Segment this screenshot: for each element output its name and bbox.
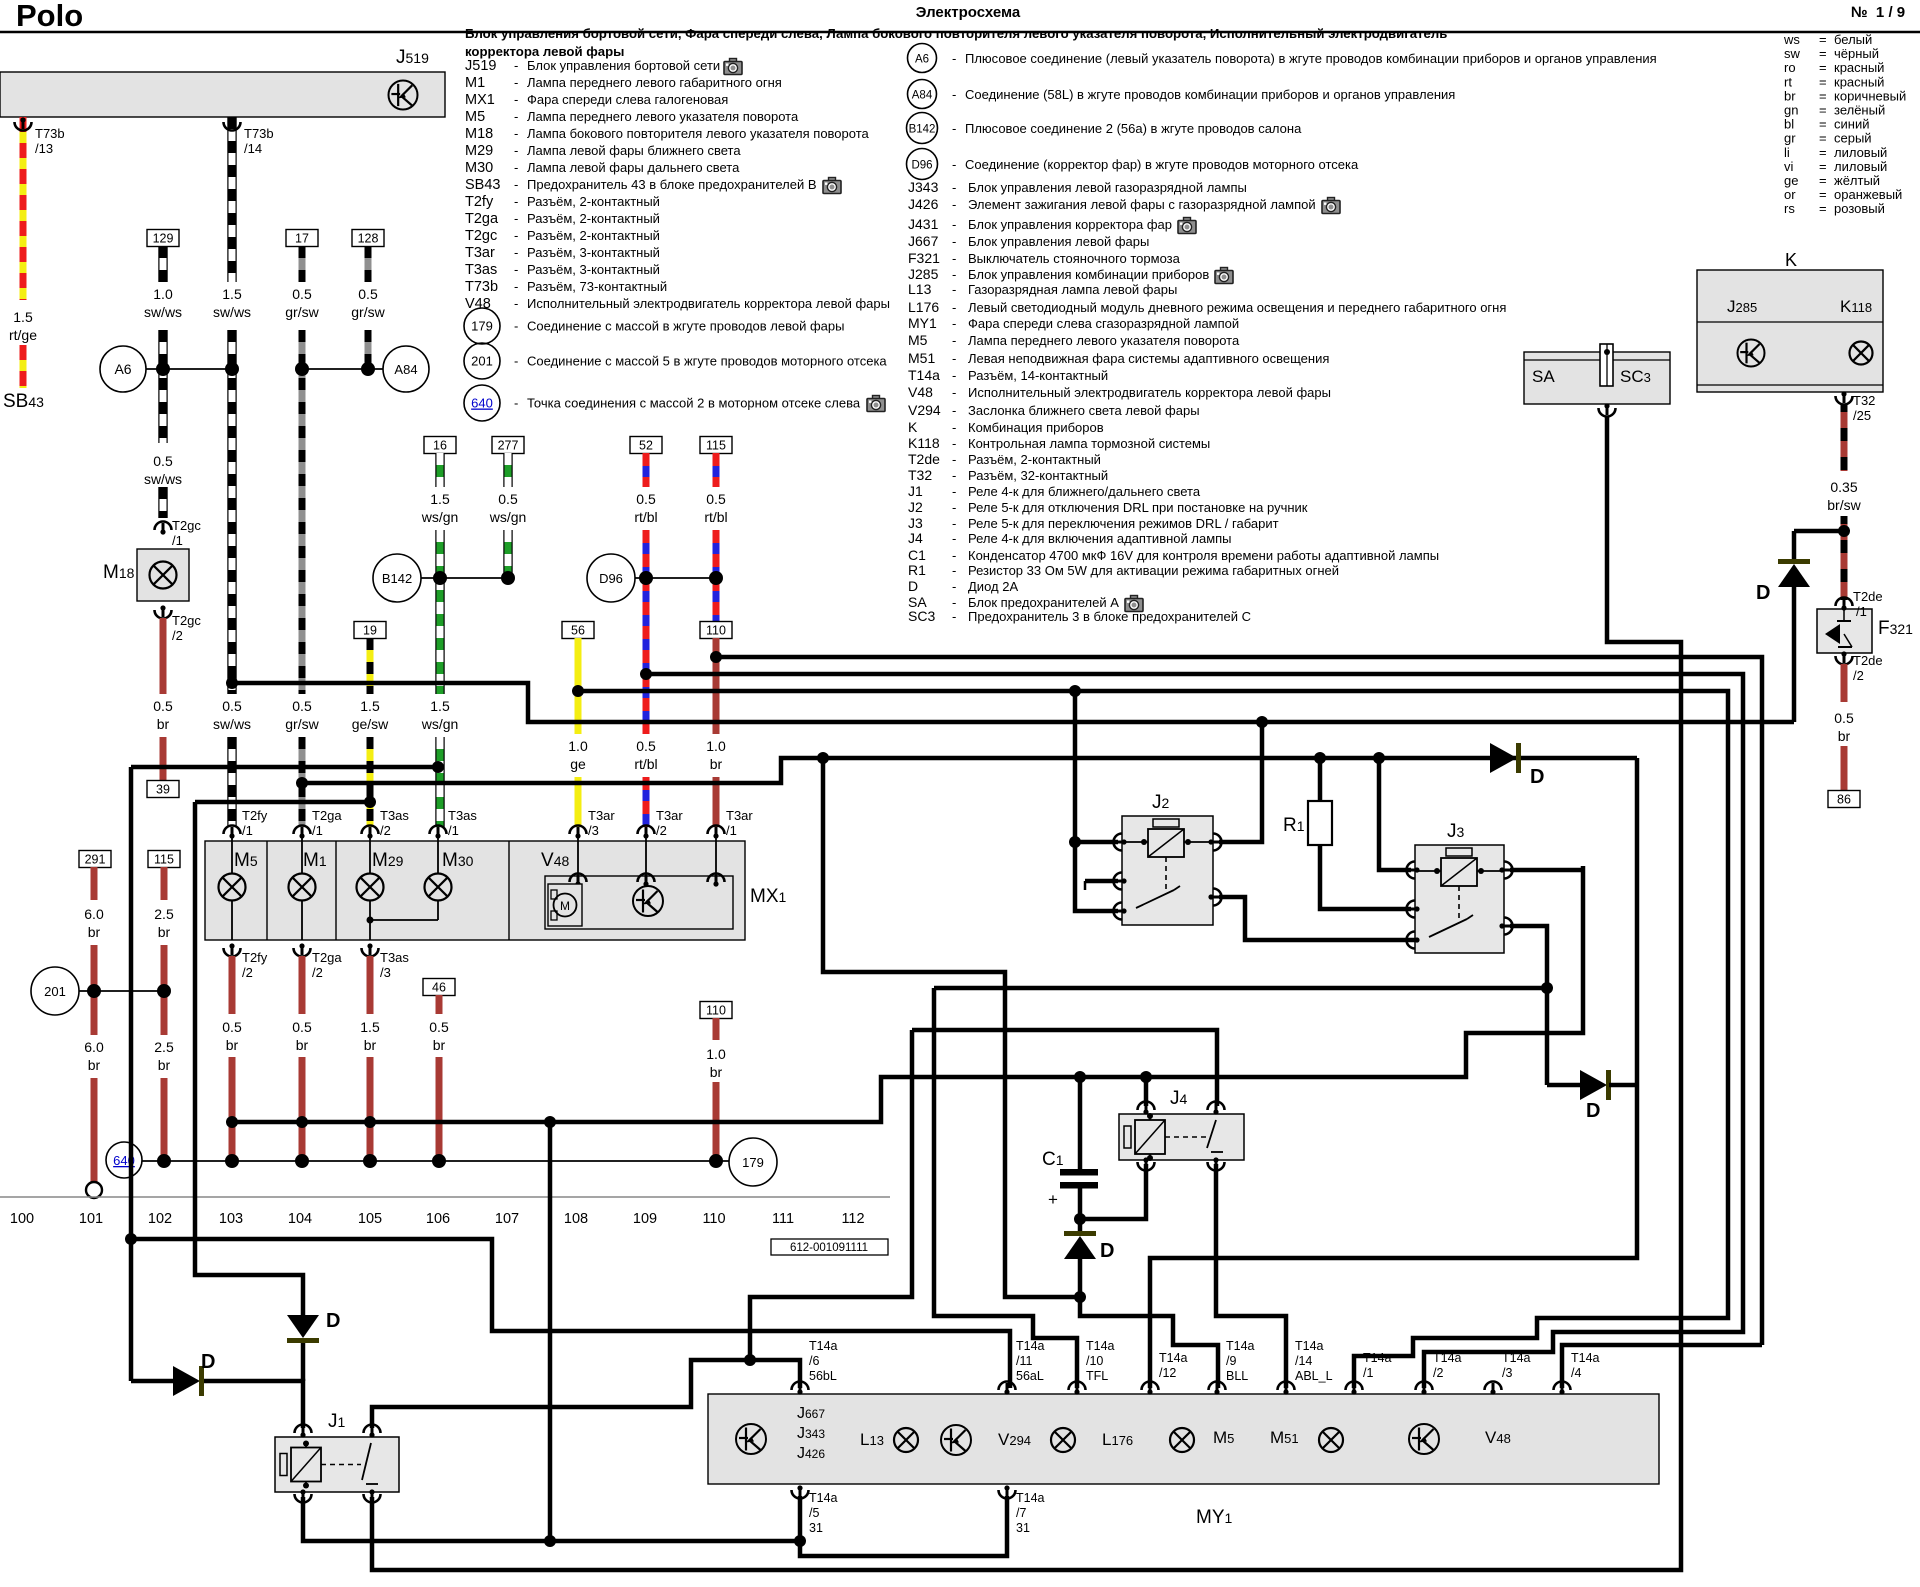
svg-text:=: = — [1819, 103, 1827, 118]
wire C1 to junction — [1078, 1188, 1083, 1236]
svg-text:M51: M51 — [1270, 1428, 1299, 1447]
svg-text:C1: C1 — [908, 547, 926, 563]
svg-text:-: - — [514, 262, 518, 277]
wire 1.5 br below T3as/3 — [367, 956, 374, 1014]
svg-text:1.5: 1.5 — [222, 286, 242, 302]
svg-text:-: - — [514, 58, 518, 73]
svg-text:M30: M30 — [465, 160, 493, 176]
wire R1 branch — [1318, 758, 1323, 801]
wire J4 switch feed — [912, 1030, 1217, 1106]
svg-text:vi: vi — [1784, 159, 1794, 174]
svg-text:L176: L176 — [1102, 1430, 1133, 1449]
handbrake switch F321 — [1817, 609, 1872, 653]
svg-text:R1: R1 — [908, 562, 926, 578]
svg-text:корректора левой фары: корректора левой фары — [465, 44, 624, 59]
svg-text:1.0: 1.0 — [706, 1046, 726, 1062]
svg-text:=: = — [1819, 60, 1827, 75]
svg-text:A6: A6 — [114, 361, 131, 377]
wire J2 coil feed riser — [1075, 691, 1118, 911]
svg-text:rt: rt — [1784, 74, 1792, 89]
connector T2ga/2 — [294, 948, 311, 957]
dash symbol J667 J343 J426 — [736, 1424, 766, 1454]
svg-text:T14a: T14a — [1295, 1339, 1324, 1353]
connector T14a//12 — [1142, 1382, 1159, 1391]
wire M30 to M29 internal — [370, 919, 438, 921]
svg-text:Заслонка ближнего света левой: Заслонка ближнего света левой фары — [968, 403, 1200, 418]
svg-text:Разъём, 2-контактный: Разъём, 2-контактный — [527, 228, 660, 243]
svg-text:-: - — [514, 211, 518, 226]
wire diode to T14a/9 — [1080, 1259, 1218, 1388]
terminal 46 box — [423, 979, 455, 996]
wire J4 switch to T14a/14 — [1216, 1164, 1286, 1388]
wire J3 NC to lamp circuits — [1510, 868, 1583, 873]
wire br/sw 0.35 — [1841, 404, 1848, 471]
resistor R1 — [1308, 801, 1332, 845]
svg-text:Лампа переднего левого габарит: Лампа переднего левого габаритного огня — [527, 75, 782, 90]
wire br below M18 — [160, 618, 167, 694]
svg-text:A84: A84 — [912, 90, 933, 102]
svg-text:/1: /1 — [172, 533, 183, 548]
svg-text:/5: /5 — [809, 1506, 819, 1520]
svg-text:-: - — [514, 228, 518, 243]
svg-text:/2: /2 — [312, 965, 323, 980]
svg-text:T14a: T14a — [1086, 1339, 1115, 1353]
svg-text:T3as: T3as — [448, 808, 477, 823]
svg-text:Конденсатор 4700 мкФ 16V для к: Конденсатор 4700 мкФ 16V для контроля вр… — [968, 548, 1439, 563]
svg-text:D: D — [1586, 1100, 1600, 1122]
svg-text:D: D — [1530, 766, 1544, 788]
svg-text:розовый: розовый — [1834, 201, 1885, 216]
svg-text:Лампа переднего левого указате: Лампа переднего левого указателя поворот… — [968, 333, 1240, 348]
svg-text:Лампа бокового повторителя лев: Лампа бокового повторителя левого указат… — [527, 126, 870, 141]
wire J4 switch feed riser — [750, 1030, 912, 1360]
svg-text:/2: /2 — [1433, 1366, 1443, 1380]
terminal 110 box lower — [700, 1002, 732, 1019]
svg-text:F321: F321 — [908, 250, 940, 266]
wire to T14a/11 — [131, 1239, 1010, 1388]
wire 0.5 br below T2ga/2 — [299, 956, 306, 1014]
svg-text:Фара спереди слева галогеновая: Фара спереди слева галогеновая — [527, 92, 728, 107]
svg-text:6.0: 6.0 — [84, 1039, 104, 1055]
svg-text:0.5: 0.5 — [153, 698, 173, 714]
svg-text:T3ar: T3ar — [726, 808, 753, 823]
svg-text:110: 110 — [706, 1004, 726, 1018]
svg-text:gn: gn — [1784, 103, 1798, 118]
wire 52 line to T14a/2 — [646, 674, 1743, 1388]
wire 128 gr/sw — [352, 230, 384, 247]
relay J2 — [1122, 816, 1213, 925]
svg-text:T2ga: T2ga — [312, 808, 342, 823]
wire 56 ge — [562, 622, 594, 639]
svg-text:17: 17 — [295, 232, 309, 246]
svg-text:-: - — [952, 197, 956, 212]
svg-text:D: D — [908, 578, 918, 594]
svg-text:-: - — [952, 531, 956, 546]
svg-text:rs: rs — [1784, 201, 1795, 216]
svg-text:Разъём, 2-контактный: Разъём, 2-контактный — [527, 211, 660, 226]
svg-text:0.5: 0.5 — [498, 491, 518, 507]
wire sw/ws T73b/14 — [227, 117, 236, 282]
connector T2gc/2 — [155, 610, 172, 619]
svg-text:Элемент зажигания левой фары с: Элемент зажигания левой фары с газоразря… — [968, 197, 1316, 212]
svg-text:-: - — [514, 396, 518, 411]
svg-text:br/sw: br/sw — [1827, 497, 1861, 513]
junction D96 — [587, 554, 635, 602]
svg-text:-: - — [952, 579, 956, 594]
svg-text:/3: /3 — [1502, 1366, 1512, 1380]
svg-text:V294: V294 — [908, 402, 941, 418]
wire SC3 to J1 ground loop — [372, 416, 1681, 1570]
svg-text:-: - — [952, 563, 956, 578]
current track ruler — [0, 1196, 890, 1198]
svg-text:li: li — [1784, 145, 1790, 160]
svg-text:277: 277 — [498, 439, 519, 453]
wire B142 junction line — [421, 577, 508, 579]
wire 17 gr/sw — [286, 230, 318, 247]
svg-text:ws: ws — [1783, 32, 1800, 47]
svg-text:Разъём, 2-контактный: Разъём, 2-контактный — [527, 194, 660, 209]
svg-text:-: - — [952, 234, 956, 249]
connector T2de/2 — [1836, 656, 1853, 665]
svg-text:Лампа левой фары дальнего свет: Лампа левой фары дальнего света — [527, 160, 740, 175]
svg-text:/3: /3 — [380, 965, 391, 980]
svg-text:640: 640 — [471, 396, 493, 411]
svg-text:gr/sw: gr/sw — [285, 304, 319, 320]
svg-text:V48: V48 — [541, 850, 569, 871]
svg-text:MX1: MX1 — [750, 886, 787, 907]
svg-text:T3ar: T3ar — [588, 808, 615, 823]
svg-text:-: - — [952, 420, 956, 435]
svg-text:Polo: Polo — [16, 0, 83, 33]
svg-text:SA: SA — [1532, 367, 1555, 386]
wire ground bus to C1 junction — [823, 758, 1080, 1297]
svg-text:0.5: 0.5 — [222, 698, 242, 714]
control unit J519 box — [0, 72, 445, 117]
svg-text:J431: J431 — [908, 216, 939, 232]
svg-text:/7: /7 — [1016, 1506, 1026, 1520]
svg-text:/3: /3 — [588, 823, 599, 838]
svg-text:синий: синий — [1834, 117, 1869, 132]
svg-text:J426: J426 — [908, 196, 939, 212]
svg-text:=: = — [1819, 46, 1827, 61]
svg-text:T32: T32 — [1853, 393, 1875, 408]
svg-text:179: 179 — [742, 1155, 764, 1170]
svg-text:K118: K118 — [908, 435, 940, 451]
svg-text:T14a: T14a — [908, 367, 940, 383]
svg-text:105: 105 — [358, 1211, 382, 1227]
svg-text:V48: V48 — [465, 296, 491, 312]
svg-text:J343: J343 — [908, 179, 939, 195]
svg-text:br: br — [710, 756, 723, 772]
MY1 bottom connector T14a/7 — [999, 1490, 1016, 1499]
svg-text:/6: /6 — [809, 1354, 819, 1368]
junction A6 — [100, 346, 146, 392]
svg-text:-: - — [952, 300, 956, 315]
svg-text:-: - — [952, 267, 956, 282]
svg-text:/2: /2 — [242, 965, 253, 980]
connector T2fy/1 — [224, 826, 241, 835]
svg-text:-: - — [952, 468, 956, 483]
junction 201 — [31, 967, 79, 1015]
wire J1 coil feed with diodes — [131, 1379, 173, 1384]
svg-text:M5: M5 — [465, 109, 485, 125]
svg-text:/25: /25 — [1853, 408, 1871, 423]
svg-text:0.5: 0.5 — [153, 453, 173, 469]
wire J1 feed from T14a/6 node — [372, 1360, 800, 1428]
svg-text:-: - — [952, 385, 956, 400]
svg-text:br: br — [364, 1037, 377, 1053]
svg-text:rt/bl: rt/bl — [634, 509, 657, 525]
svg-text:612-001091111: 612-001091111 — [790, 1242, 868, 1254]
svg-text:V294: V294 — [998, 1430, 1031, 1449]
terminal 291 box — [79, 851, 111, 868]
svg-text:=: = — [1819, 173, 1827, 188]
svg-text:J285: J285 — [1727, 297, 1757, 316]
relay J1 — [275, 1437, 399, 1492]
svg-text:V48: V48 — [908, 384, 933, 400]
svg-text:31: 31 — [1016, 1521, 1030, 1535]
svg-text:-: - — [514, 296, 518, 311]
svg-text:Лампа левой фары ближнего свет: Лампа левой фары ближнего света — [527, 143, 741, 158]
svg-text:1.5: 1.5 — [360, 1019, 380, 1035]
svg-text:T2fy: T2fy — [465, 194, 494, 210]
svg-text:серый: серый — [1834, 131, 1872, 146]
svg-text:коричневый: коричневый — [1834, 88, 1906, 103]
svg-text:111: 111 — [772, 1211, 794, 1227]
svg-text:J4: J4 — [1170, 1088, 1188, 1109]
svg-text:Блок управления бортовой сети,: Блок управления бортовой сети, Фара спер… — [465, 26, 1447, 41]
svg-text:56: 56 — [571, 624, 585, 638]
svg-text:-: - — [514, 160, 518, 175]
svg-text:-: - — [514, 319, 518, 334]
svg-text:T14a: T14a — [1016, 1339, 1045, 1353]
svg-text:Исполнительный электродвигател: Исполнительный электродвигатель корректо… — [527, 296, 890, 311]
svg-text:L176: L176 — [908, 299, 939, 315]
svg-text:J1: J1 — [328, 1411, 346, 1432]
connector T14a//11 — [999, 1382, 1016, 1391]
wire 201 junction line — [79, 990, 164, 992]
svg-text:86: 86 — [1837, 793, 1851, 807]
svg-text:/1: /1 — [448, 823, 459, 838]
dash symbol in K — [1738, 340, 1765, 367]
svg-text:Соединение (58L) в жгуте прово: Соединение (58L) в жгуте проводов комбин… — [965, 87, 1455, 102]
connector T2fy/2 — [224, 948, 241, 957]
svg-text:T14a: T14a — [1433, 1351, 1462, 1365]
svg-text:/13: /13 — [35, 141, 53, 156]
connector T14a//3 — [1485, 1382, 1502, 1391]
svg-text:1.0: 1.0 — [568, 738, 588, 754]
svg-text:rt/bl: rt/bl — [704, 509, 727, 525]
svg-text:M29: M29 — [465, 143, 493, 159]
svg-text:K118: K118 — [1840, 297, 1872, 316]
wire J4 feed taps — [1144, 1077, 1149, 1106]
svg-text:-: - — [952, 484, 956, 499]
svg-text:-: - — [952, 452, 956, 467]
svg-text:T14a: T14a — [1226, 1339, 1255, 1353]
svg-text:101: 101 — [79, 1211, 103, 1227]
connector T2de/1 — [1836, 598, 1853, 607]
svg-text:19: 19 — [363, 624, 377, 638]
svg-text:D: D — [201, 1351, 215, 1373]
connector T14a//9 — [1209, 1382, 1226, 1391]
svg-text:Электросхема: Электросхема — [916, 4, 1021, 21]
wire left riser 102 — [129, 767, 134, 1381]
svg-text:Диод 2А: Диод 2А — [968, 579, 1018, 594]
svg-text:J3: J3 — [1447, 821, 1465, 842]
header rule — [0, 31, 1920, 33]
svg-text:MX1: MX1 — [465, 92, 495, 108]
svg-text:Левая неподвижная фара системы: Левая неподвижная фара системы адаптивно… — [968, 351, 1329, 366]
svg-text:J667: J667 — [908, 233, 939, 249]
connector T2gc/1 — [155, 522, 172, 531]
svg-text:чёрный: чёрный — [1834, 46, 1879, 61]
svg-text:J519: J519 — [396, 47, 429, 68]
wire 110 line to T14a/4 — [716, 657, 1762, 1345]
svg-text:br: br — [1838, 728, 1851, 744]
svg-text:0.5: 0.5 — [636, 738, 656, 754]
svg-text:0.5: 0.5 — [636, 491, 656, 507]
diode D lamp bus — [1547, 1083, 1580, 1088]
svg-text:0.5: 0.5 — [1834, 710, 1854, 726]
svg-text:1.0: 1.0 — [706, 738, 726, 754]
svg-text:Соединение с массой в жгуте пр: Соединение с массой в жгуте проводов лев… — [527, 319, 844, 334]
svg-text:1.5: 1.5 — [360, 698, 380, 714]
svg-text:M5: M5 — [908, 332, 928, 348]
svg-text:31: 31 — [809, 1521, 823, 1535]
wire T14a/5 link — [798, 1496, 803, 1541]
wire rt/ge SB43 — [20, 117, 27, 300]
svg-text:/9: /9 — [1226, 1354, 1236, 1368]
wire bus to diode top right — [1794, 529, 1844, 534]
svg-text:/12: /12 — [1159, 1366, 1176, 1380]
svg-text:Комбинация приборов: Комбинация приборов — [968, 420, 1104, 435]
diode D below C1 — [1064, 1236, 1096, 1259]
svg-text:T14a: T14a — [1571, 1351, 1600, 1365]
svg-text:0.5: 0.5 — [429, 1019, 449, 1035]
svg-text:Блок управления бортовой сети: Блок управления бортовой сети — [527, 58, 720, 73]
ground point circle on rail — [86, 1182, 102, 1198]
svg-text:Соединение с массой 5 в жгуте: Соединение с массой 5 в жгуте проводов м… — [527, 354, 887, 369]
svg-text:sw: sw — [1784, 46, 1801, 61]
svg-text:115: 115 — [154, 853, 174, 867]
svg-text:R1: R1 — [1283, 815, 1305, 836]
svg-text:-: - — [952, 516, 956, 531]
svg-text:T3as: T3as — [380, 950, 409, 965]
brake warning lamp K118 symbol — [1850, 342, 1873, 365]
svg-text:-: - — [952, 282, 956, 297]
svg-text:B142: B142 — [382, 571, 412, 586]
svg-text:39: 39 — [156, 783, 170, 797]
svg-text:белый: белый — [1834, 32, 1872, 47]
svg-text:M5: M5 — [1213, 1428, 1234, 1447]
svg-text:/1: /1 — [1363, 1366, 1373, 1380]
connector T3as/2 — [362, 826, 379, 835]
svg-text:-: - — [952, 351, 956, 366]
svg-text:MY1: MY1 — [908, 315, 937, 331]
svg-text:br: br — [296, 1037, 309, 1053]
wire D96 junction line — [635, 577, 716, 579]
svg-text:Разъём, 32-контактный: Разъём, 32-контактный — [968, 468, 1108, 483]
wire 52 rt/bl — [630, 437, 662, 454]
svg-text:/1: /1 — [726, 823, 737, 838]
svg-text:br: br — [157, 716, 170, 732]
svg-text:6.0: 6.0 — [84, 906, 104, 922]
svg-text:T3as: T3as — [465, 262, 497, 278]
svg-text:291: 291 — [85, 853, 106, 867]
svg-text:-: - — [514, 279, 518, 294]
svg-text:T14a: T14a — [1363, 1351, 1392, 1365]
svg-text:/2: /2 — [656, 823, 667, 838]
svg-text:T14a: T14a — [809, 1339, 838, 1353]
svg-text:52: 52 — [639, 439, 653, 453]
svg-text:T2ga: T2ga — [465, 211, 499, 227]
svg-text:T2gc: T2gc — [465, 228, 497, 244]
svg-text:J2: J2 — [908, 499, 923, 515]
svg-text:Разъём, 2-контактный: Разъём, 2-контактный — [968, 452, 1101, 467]
svg-text:br: br — [226, 1037, 239, 1053]
terminal 39 box — [147, 781, 179, 798]
svg-text:SB43: SB43 — [465, 177, 500, 193]
svg-text:ge: ge — [570, 756, 586, 772]
lamp M18 box — [137, 549, 189, 601]
svg-text:103: 103 — [219, 1211, 243, 1227]
svg-text:56aL: 56aL — [1016, 1369, 1044, 1383]
connector T14a//10 — [1069, 1382, 1086, 1391]
svg-text:ABL_L: ABL_L — [1295, 1369, 1333, 1383]
svg-text:Исполнительный электродвигател: Исполнительный электродвигатель корректо… — [968, 385, 1331, 400]
svg-text:-: - — [952, 180, 956, 195]
wire J3 coil feed — [1379, 758, 1411, 870]
svg-text:Точка соединения с массой 2 в: Точка соединения с массой 2 в моторном о… — [527, 396, 861, 411]
svg-text:T3ar: T3ar — [465, 245, 495, 261]
svg-text:-: - — [952, 500, 956, 515]
svg-text:128: 128 — [358, 232, 379, 246]
svg-text:br: br — [158, 1057, 171, 1073]
xenon headlight MY1 box — [708, 1394, 1659, 1484]
connector T2ga/1 — [294, 826, 311, 835]
svg-text:Разъём, 14-контактный: Разъём, 14-контактный — [968, 368, 1108, 383]
dash symbol right in MY1 — [1409, 1424, 1439, 1454]
svg-text:=: = — [1819, 74, 1827, 89]
wire 0.5 br right — [1841, 664, 1848, 702]
wire 16 ws/gn — [424, 437, 456, 454]
wire 0.5 br below T2fy/2 — [229, 956, 236, 1014]
junction 640 — [106, 1142, 142, 1178]
svg-text:T2ga: T2ga — [312, 950, 342, 965]
svg-text:T3ar: T3ar — [656, 808, 683, 823]
svg-text:gr/sw: gr/sw — [351, 304, 385, 320]
motor symbol in V48 — [548, 884, 582, 926]
svg-text:/1: /1 — [1856, 604, 1867, 619]
svg-text:D96: D96 — [911, 160, 932, 172]
svg-text:br: br — [433, 1037, 446, 1053]
svg-text:B142: B142 — [909, 124, 936, 136]
svg-text:T32: T32 — [908, 467, 932, 483]
svg-text:-: - — [514, 143, 518, 158]
svg-text:-: - — [952, 121, 956, 136]
svg-text:-: - — [952, 51, 956, 66]
svg-text:107: 107 — [495, 1211, 519, 1227]
svg-text:T14a: T14a — [1502, 1351, 1531, 1365]
svg-text:-: - — [952, 595, 956, 610]
svg-text:J2: J2 — [1152, 792, 1170, 813]
svg-text:V48: V48 — [1485, 1428, 1511, 1447]
svg-text:0.5: 0.5 — [292, 286, 312, 302]
diode D top right — [1778, 564, 1810, 587]
svg-text:Фара спереди слева сгазоразряд: Фара спереди слева сгазоразрядной лампой — [968, 316, 1239, 331]
svg-text:A6: A6 — [915, 54, 929, 66]
svg-text:T73b: T73b — [465, 279, 498, 295]
